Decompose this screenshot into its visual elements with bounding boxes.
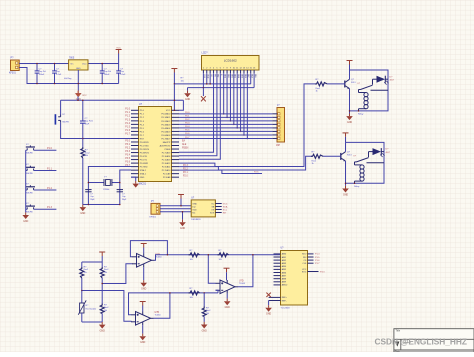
wire base 1 (327, 83, 345, 85)
svg-text:ALE: ALE (182, 143, 187, 146)
svg-text:GND: GND (343, 194, 348, 196)
power VCC symbol top right of supply (116, 47, 122, 63)
svg-text:GND: GND (185, 99, 190, 101)
wires LCD data DB0-DB7 to MCU P0 (223, 73, 248, 139)
svg-text:P0.4: P0.4 (185, 126, 190, 128)
svg-text:P3.5/T1: P3.5/T1 (140, 159, 148, 161)
svg-text:P1.0: P1.0 (47, 147, 53, 150)
wire emitter to ground 2 (345, 161, 347, 186)
transistor Q2 9013 (341, 151, 353, 161)
wire button to net label (34, 208, 57, 210)
resistor R7 10k lower chain (189, 288, 200, 299)
svg-text:XTAL1: XTAL1 (140, 173, 147, 176)
svg-text:P0.2: P0.2 (185, 119, 190, 121)
connector P2 sensor body (150, 201, 161, 219)
svg-text:P1.7: P1.7 (125, 133, 130, 135)
wire opamp2 feedback loop (129, 293, 170, 315)
svg-text:89C51: 89C51 (139, 183, 147, 186)
junction caps on rails (36, 63, 38, 65)
push button S1 SW-PB (26, 144, 35, 155)
ADC left pins AIN0-AIN10 (274, 253, 289, 287)
junction feedback to output line (167, 254, 169, 256)
svg-text:P2.7/A15: P2.7/A15 (162, 151, 171, 154)
svg-text:10k: 10k (190, 259, 193, 261)
svg-text:TL064: TL064 (155, 315, 162, 317)
op-amp A triangle (132, 254, 155, 268)
wire emitter to ground 1 (349, 89, 351, 114)
svg-text:AIN10: AIN10 (282, 284, 288, 287)
relay coil K2 (354, 162, 364, 188)
svg-text:DS18B20: DS18B20 (191, 219, 201, 221)
ADC ref pins (269, 297, 288, 302)
svg-text:GND: GND (80, 213, 85, 215)
wire LCD pin16 BLK down (253, 73, 255, 87)
svg-text:P1.6: P1.6 (125, 130, 130, 132)
relay coil K1 (358, 90, 368, 116)
wire button to net label (34, 189, 57, 191)
svg-text:P0.0/AD0: P0.0/AD0 (161, 113, 171, 116)
voltage regulator U1 7805 (69, 57, 88, 70)
push button S4 SW-PB (26, 203, 35, 214)
svg-text:VCC: VCC (116, 47, 121, 49)
svg-text:10k: 10k (181, 81, 184, 83)
LCD pin numbers row (203, 68, 256, 70)
svg-text:P1.2: P1.2 (125, 116, 130, 118)
svg-text:P3.7: P3.7 (125, 165, 130, 167)
svg-text:Res2: Res2 (104, 269, 108, 271)
wire lower chain (170, 292, 218, 294)
svg-text:TLC2543: TLC2543 (281, 307, 291, 309)
capacitor C1 100uF (35, 64, 47, 84)
svg-text:P3.5: P3.5 (125, 158, 130, 160)
junction chain tap (208, 254, 210, 256)
wire bridge right tap to opamp1 (102, 264, 132, 284)
svg-text:10k: 10k (104, 272, 107, 274)
connector P1 power input (9, 57, 19, 75)
resistor R2 10k bridge upper right (100, 262, 108, 284)
wire bridge bottom rail (82, 321, 102, 323)
svg-text:0.1uF: 0.1uF (120, 74, 126, 76)
svg-text:P0.1: P0.1 (185, 116, 190, 118)
svg-text:12MHz: 12MHz (103, 189, 109, 191)
variable resistor R3 sensor (78, 291, 96, 323)
VCC symbol relay 2 (343, 133, 349, 143)
wire LCD pin15 BLA down (250, 73, 252, 84)
wire opamp1 feedback loop (130, 241, 167, 257)
ground symbol shunt (201, 322, 208, 329)
ADC U4 TLC2543 body (281, 251, 308, 306)
svg-text:Res Variable: Res Variable (86, 308, 97, 311)
svg-text:10k: 10k (190, 297, 193, 299)
resistor R6 10k series (218, 250, 229, 261)
wire XTAL1 from MCU (120, 170, 131, 205)
svg-text:P2.1: P2.1 (183, 172, 188, 174)
wire button left rail segment (26, 170, 28, 172)
svg-text:GND: GND (76, 68, 81, 70)
svg-text:P1.5: P1.5 (315, 257, 320, 259)
LCD pins bottom stubs and labels (203, 70, 256, 79)
wire opamp3 lower input (216, 290, 219, 293)
chip U3 inner pin names (192, 203, 214, 214)
resistor R5 10k series (189, 250, 200, 261)
svg-text:VCC: VCC (166, 110, 171, 112)
svg-text:TL064: TL064 (156, 257, 163, 259)
junction left tap (81, 290, 83, 292)
svg-text:P0.5: P0.5 (185, 130, 190, 132)
ground symbol relay 2 (342, 186, 349, 193)
wire XTAL2 from MCU (88, 167, 131, 205)
svg-text:P2.6/A14: P2.6/A14 (162, 155, 171, 158)
svg-text:VCC: VCC (82, 95, 87, 97)
LCD1602 module body (202, 56, 260, 71)
ground symbol opamp3 (224, 294, 231, 309)
svg-text:GND: GND (141, 289, 146, 291)
junction gnd rail (88, 204, 90, 206)
svg-text:EA/VPP: EA/VPP (163, 141, 171, 144)
ground symbol MCU (132, 181, 139, 188)
MCU right net labels (182, 139, 189, 177)
wire chain tap to opamp3 upper input (208, 255, 215, 283)
svg-text:16P: 16P (276, 145, 281, 147)
wire opamp2 output (154, 293, 170, 318)
svg-text:Res2: Res2 (104, 307, 108, 309)
wire button to net label (34, 170, 57, 172)
wire LCD pin2 VDD down (206, 73, 208, 84)
wire crystal ground rail (83, 204, 120, 206)
VCC symbol opamp2 (140, 302, 146, 312)
svg-text:P1.3: P1.3 (125, 119, 130, 121)
VCC symbol sensor (178, 195, 184, 207)
capacitor C6 30pF (85, 190, 95, 201)
ADC right pins and net labels (302, 254, 325, 274)
wire reset rail left down to switch (60, 100, 62, 114)
wire regulator ground pin (77, 70, 79, 91)
svg-text:GND: GND (266, 314, 271, 316)
ground symbol opamp1 (140, 267, 147, 291)
svg-text:10k: 10k (84, 272, 87, 274)
svg-text:10k: 10k (85, 155, 88, 157)
capacitor C7 30pF (117, 190, 128, 201)
svg-text:Vout: Vout (82, 63, 87, 66)
svg-text:P1.4: P1.4 (125, 123, 130, 125)
svg-text:P0.7: P0.7 (185, 137, 190, 139)
wire collector 1 (349, 70, 351, 79)
svg-text:CLK: CLK (302, 263, 307, 265)
wires MCU P0 bus rows to header (179, 114, 272, 139)
wire base 2 (323, 155, 341, 157)
svg-text:P3.0: P3.0 (125, 140, 130, 142)
relay switch contact 1 (358, 79, 389, 90)
svg-text:GND: GND (180, 228, 185, 230)
svg-text:GND: GND (347, 122, 352, 124)
op-amp A labels (156, 253, 163, 259)
VCC symbol LCD supply (171, 69, 177, 84)
svg-text:Res2: Res2 (84, 269, 88, 271)
svg-text:SW-PB: SW-PB (26, 153, 33, 155)
svg-text:P2.0: P2.0 (183, 176, 188, 178)
VCC symbol relay 1 (347, 61, 353, 71)
VCC symbol bridge (99, 252, 105, 262)
capacitor C4 0.1uF (116, 64, 126, 84)
svg-text:GND: GND (192, 203, 197, 205)
relay switch contact 2 (354, 152, 385, 163)
svg-text:P3.1/TXD: P3.1/TXD (140, 145, 150, 147)
svg-text:SOK: SOK (210, 212, 215, 214)
title block (394, 329, 474, 354)
svg-text:P3.6/WR: P3.6/WR (140, 163, 149, 165)
junction cap to rst rail (82, 138, 84, 140)
svg-text:P3.3: P3.3 (125, 151, 130, 153)
svg-text:P0.3/AD3: P0.3/AD3 (161, 123, 171, 126)
svg-text:GND: GND (202, 330, 207, 332)
svg-text:VDD: VDD (192, 209, 197, 211)
svg-text:GND: GND (100, 330, 105, 332)
svg-text:10uF: 10uF (85, 123, 90, 125)
svg-text:RST: RST (140, 138, 145, 140)
junction relay rail 2 (354, 183, 356, 185)
junction opamp2 loop (169, 292, 171, 294)
chip U3 DS18B20 body (191, 200, 215, 217)
wire button to net label (34, 149, 57, 151)
ground symbol LCD (184, 88, 191, 101)
svg-text:SW-PB: SW-PB (62, 122, 69, 124)
no-ERC cross marker (201, 96, 206, 101)
resistor R9 10k reset pulldown (81, 139, 91, 205)
svg-text:P3.2: P3.2 (125, 147, 130, 149)
junction emitter rail 1 (349, 110, 351, 112)
svg-text:P0.4/AD4: P0.4/AD4 (161, 127, 171, 130)
wire relay 1 top rail (350, 70, 389, 111)
wire switch bottom to RST rail (61, 123, 139, 139)
junction emitter rail 2 (345, 183, 347, 185)
header J1 8 pin body (277, 108, 285, 143)
net labels P0 bus (185, 112, 190, 139)
MCU left net labels P1 and P3 (125, 109, 130, 167)
svg-text:P1.5: P1.5 (125, 126, 130, 128)
pot RP contrast labels (181, 78, 185, 83)
svg-text:P1.4: P1.4 (315, 254, 320, 256)
no-ERC marker ADC REF+ (266, 293, 270, 297)
svg-text:P0.1/AD1: P0.1/AD1 (161, 116, 171, 119)
svg-text:Cap Pol: Cap Pol (104, 71, 112, 73)
svg-text:1k: 1k (316, 91, 318, 93)
svg-text:P3.3/INT1: P3.3/INT1 (140, 152, 150, 154)
wire from P1 pin2 to ground rail (19, 68, 118, 84)
op-amp D labels (239, 280, 246, 285)
svg-text:EOC: EOC (302, 271, 307, 273)
wire bridge top rail (82, 261, 102, 263)
ground symbol bridge (99, 322, 106, 329)
junction regulator gnd to rail (78, 83, 80, 85)
svg-text:P1.2: P1.2 (47, 187, 53, 190)
svg-text:P1.1: P1.1 (47, 167, 53, 170)
diode D1 flyback (373, 76, 395, 85)
svg-text:P1.0: P1.0 (125, 109, 130, 111)
chip U3 right stubs and labels (215, 203, 227, 214)
wire LCD pin1 VSS down (202, 73, 204, 87)
ground symbol below regulator (75, 91, 82, 98)
svg-text:GND: GND (140, 342, 145, 344)
svg-text:Res2: Res2 (206, 310, 210, 312)
junction crystal to xtal rails (88, 182, 90, 184)
wire button left rail segment (26, 189, 28, 191)
svg-text:SW-PB: SW-PB (26, 212, 33, 214)
svg-text:P3.4: P3.4 (125, 154, 130, 156)
svg-text:SDA: SDA (223, 205, 228, 208)
junction output to AIN0 line (252, 254, 254, 256)
wire collector 2 (345, 142, 347, 151)
svg-text:XTAL2: XTAL2 (140, 169, 147, 172)
MCU ground pin wire (131, 177, 136, 181)
svg-text:P0.5/AD5: P0.5/AD5 (161, 130, 171, 133)
svg-text:P0.2/AD2: P0.2/AD2 (161, 120, 171, 123)
svg-text:GND: GND (225, 307, 230, 309)
svg-text:PSEN: PSEN (182, 147, 189, 149)
junction VDD rail (206, 83, 208, 85)
wire bridge left tap to opamp2 (82, 291, 132, 322)
wire LCD VCC rail (174, 83, 250, 85)
svg-text:SW-PB: SW-PB (26, 192, 33, 194)
push button S3 SW-PB (26, 184, 35, 195)
svg-text:KF301: KF301 (150, 217, 157, 219)
svg-text:P2.2/A10: P2.2/A10 (162, 169, 171, 172)
capacitor C3 100uF (100, 64, 112, 84)
ground symbol sensor (179, 211, 186, 230)
wire opamp3 output to ADC AIN0 (238, 255, 253, 287)
wires sensor to chip (160, 206, 191, 212)
op-amp B labels (155, 312, 162, 317)
svg-text:Title: Title (396, 329, 401, 332)
svg-text:Cap Pol1: Cap Pol1 (85, 121, 94, 123)
diode D2 flyback (369, 148, 391, 157)
resistor R1 1k base (315, 79, 327, 92)
svg-text:1k: 1k (312, 163, 314, 165)
MCU pins left (131, 110, 150, 179)
svg-text:P2.5/A13: P2.5/A13 (162, 158, 171, 161)
svg-text:P0.6: P0.6 (185, 133, 190, 135)
svg-text:7805: 7805 (69, 57, 75, 59)
ground symbol buttons (22, 212, 29, 219)
svg-text:GND: GND (140, 177, 145, 179)
wires LCD RS RW E to MCU (179, 73, 220, 159)
junction VSS rail (203, 87, 205, 89)
push button S5 reset SW-PB (55, 114, 69, 124)
wire P2 to relay2 (179, 156, 312, 170)
wire button left rail segment (26, 208, 28, 210)
svg-text:ALE/PROG: ALE/PROG (160, 144, 171, 147)
capacitor C5 10uF reset (80, 100, 94, 138)
VCC symbol reset rail (76, 91, 87, 101)
svg-text:SW-PB: SW-PB (26, 173, 33, 175)
svg-text:VCC: VCC (302, 269, 307, 271)
svg-text:P0.6/AD6: P0.6/AD6 (161, 134, 171, 137)
svg-text:P3.3: P3.3 (320, 271, 325, 273)
wire bridge right branch lower (101, 284, 103, 304)
svg-text:Vol Reg: Vol Reg (64, 78, 72, 80)
header pins (272, 113, 280, 140)
svg-text:P1.1: P1.1 (125, 112, 130, 114)
resistor R2 1k base (311, 152, 323, 165)
svg-text:GND: GND (23, 221, 28, 223)
svg-text:P3.1: P3.1 (125, 144, 130, 146)
wire VCC rail of reset circuit (61, 99, 184, 101)
svg-text:P3.6: P3.6 (125, 162, 130, 164)
svg-text:VCC: VCC (223, 203, 228, 205)
svg-text:KF301: KF301 (9, 73, 16, 75)
svg-text:CSDN @ENGLISH_HHZ: CSDN @ENGLISH_HHZ (375, 337, 467, 347)
wire P2 spare (179, 170, 262, 173)
wire LCD pin3 V0 contrast (209, 73, 211, 84)
svg-text:U?D: U?D (239, 280, 244, 282)
svg-text:SDO: SDO (302, 254, 307, 256)
junction relay rail 1 (358, 110, 360, 112)
svg-text:P1.6: P1.6 (315, 260, 320, 262)
svg-text:P2.3/A11: P2.3/A11 (162, 166, 171, 169)
svg-text:P0.7/AD7: P0.7/AD7 (161, 137, 171, 140)
svg-text:P2.1/A9: P2.1/A9 (163, 173, 171, 176)
svg-text:10k: 10k (219, 259, 222, 261)
junction right tap (101, 283, 103, 285)
push button S2 SW-PB (26, 164, 35, 175)
svg-text:SDI: SDI (303, 257, 307, 259)
wire P2 to relay1 (179, 84, 315, 167)
op-amp B triangle (131, 312, 154, 326)
svg-text:TL064: TL064 (239, 283, 246, 285)
wire power rail top (19, 63, 68, 65)
svg-text:P3.4/T0: P3.4/T0 (140, 156, 148, 158)
svg-text:P2.4/A12: P2.4/A12 (162, 162, 171, 165)
wire buttons common rail (25, 150, 27, 212)
svg-text:Cap Pol: Cap Pol (39, 71, 47, 73)
wire VCC drop to MCU VCC pin (174, 84, 176, 111)
ground symbol ADC ref2 (265, 301, 272, 316)
svg-text:0.1uF: 0.1uF (56, 74, 62, 76)
svg-text:LCD?: LCD? (202, 52, 209, 55)
op-amp D triangle (216, 280, 239, 294)
svg-text:P3.7/RD: P3.7/RD (140, 167, 148, 169)
ground symbol relay 1 (346, 114, 353, 121)
wire power rail top right (88, 63, 119, 65)
crystal Y1 12MHz (88, 177, 119, 192)
wire relay 2 top rail (346, 142, 385, 183)
ground symbol opamp2 (139, 325, 146, 344)
svg-text:100uF: 100uF (104, 74, 110, 76)
svg-text:P2.0/A8: P2.0/A8 (163, 176, 171, 179)
svg-text:P1.7: P1.7 (315, 263, 320, 265)
MCU U2 89C51 body (139, 107, 172, 182)
wire stub below VSS (202, 88, 204, 96)
svg-text:PSEN: PSEN (165, 149, 171, 151)
VCC symbol opamp3 (224, 268, 230, 280)
svg-text:P0.3: P0.3 (185, 123, 190, 125)
wire LCD gnd rail (188, 87, 255, 89)
transistor Q1 9013 (345, 79, 357, 89)
svg-text:EA: EA (182, 139, 186, 142)
capacitor C2 0.1uF (52, 64, 62, 84)
svg-text:P0.0: P0.0 (185, 112, 190, 114)
wire VCC rail drop to MCU VCC pin (179, 100, 183, 110)
svg-text:P3.2/INT0: P3.2/INT0 (140, 149, 150, 151)
svg-text:P3.0/RXD: P3.0/RXD (140, 142, 150, 144)
svg-text:P2.5: P2.5 (254, 172, 259, 174)
svg-text:DQ: DQ (192, 206, 195, 208)
wire button left rail segment (26, 149, 28, 151)
svg-text:U?B: U?B (155, 312, 160, 314)
resistor R4 10k bridge lower right (100, 303, 108, 322)
wire opamp1 output (155, 255, 281, 260)
svg-text:REF+: REF+ (282, 297, 288, 299)
svg-text:P1.3: P1.3 (47, 206, 53, 209)
